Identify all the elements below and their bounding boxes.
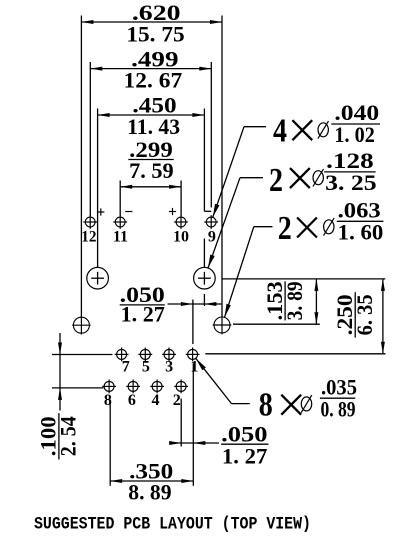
svg-text:8: 8 (259, 387, 273, 424)
svg-text:2. 54: 2. 54 (56, 416, 81, 456)
svg-text:1. 27: 1. 27 (121, 302, 165, 327)
svg-text:10: 10 (173, 228, 189, 245)
svg-text:12: 12 (81, 228, 96, 245)
svg-text:SUGGESTED PCB LAYOUT (TOP VIEW: SUGGESTED PCB LAYOUT (TOP VIEW) (34, 514, 311, 534)
svg-text:8. 89: 8. 89 (128, 479, 171, 504)
svg-text:6. 35: 6. 35 (352, 294, 377, 335)
svg-text:1. 02: 1. 02 (334, 122, 374, 147)
svg-text:7. 59: 7. 59 (129, 158, 174, 183)
svg-text:4: 4 (273, 113, 287, 150)
svg-text:1. 27: 1. 27 (222, 443, 268, 468)
svg-text:6: 6 (128, 392, 136, 409)
svg-text:2: 2 (173, 392, 181, 409)
svg-text:3. 25: 3. 25 (325, 170, 377, 195)
svg-text:0. 89: 0. 89 (320, 396, 355, 421)
svg-text:12. 67: 12. 67 (124, 68, 183, 93)
svg-text:11: 11 (113, 228, 128, 245)
svg-text:15. 75: 15. 75 (126, 22, 184, 47)
svg-text:7: 7 (122, 358, 130, 375)
svg-text:9: 9 (208, 228, 216, 245)
svg-text:5: 5 (142, 358, 150, 375)
svg-text:3. 89: 3. 89 (282, 281, 307, 320)
svg-text:3: 3 (165, 358, 173, 375)
svg-text:4: 4 (152, 392, 160, 409)
svg-text:2: 2 (269, 162, 283, 199)
svg-text:1. 60: 1. 60 (338, 219, 384, 244)
svg-text:11. 43: 11. 43 (127, 114, 180, 139)
svg-text:2: 2 (278, 210, 292, 247)
